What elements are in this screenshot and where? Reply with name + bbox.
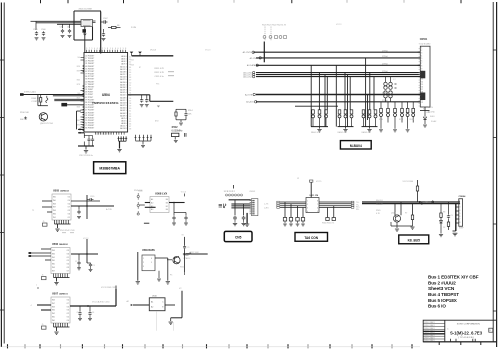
svg-text:IN0: IN0 (52, 264, 55, 266)
labels left of double wire (376, 200, 384, 215)
title block left column divider (444, 320, 446, 342)
capacitor C511 pair (87, 138, 90, 142)
opto U510 box (149, 298, 165, 311)
svg-text:8: 8 (125, 48, 126, 50)
svg-text:O7: O7 (67, 303, 69, 305)
svg-text:AD12 4: AD12 4 (120, 65, 126, 68)
IC U507 right pin texts (67, 300, 69, 322)
svg-text:A2-STB: A2-STB (245, 93, 253, 96)
svg-text:( 7 P 4.5 E 3 B ): ( 7 P 4.5 E 3 B ) (458, 337, 474, 339)
label box KB (399, 235, 429, 244)
title block bottom edge line (423, 341, 496, 343)
U506 left wire 2 (31, 252, 52, 254)
svg-text:1: 1 (307, 201, 308, 203)
svg-text:IN7: IN7 (52, 303, 55, 305)
svg-text:AD3 1: AD3 1 (121, 58, 126, 61)
svg-text:O5: O5 (67, 260, 69, 262)
IC U507 left pin texts (52, 300, 55, 322)
svg-text:VCC5: VCC5 (316, 181, 322, 183)
pad stub x311 top (310, 180, 313, 182)
bus left-end labels (243, 51, 260, 104)
cluster drop wire 1 (234, 200, 236, 215)
connector CN501 inner pin column (421, 48, 423, 105)
connector column pins (250, 200, 255, 215)
svg-text:Bus 5 IOP18X: Bus 5 IOP18X (428, 298, 458, 303)
frame bottom faint line (1, 346, 420, 348)
vertical to ground rail (83, 142, 85, 147)
svg-text:4: 4 (112, 48, 113, 50)
wire drop x367 long (367, 95, 369, 121)
bus wire A2-CNT0 (253, 51, 420, 53)
svg-text:6: 6 (115, 48, 116, 50)
svg-text:Bus 4 TBDPST: Bus 4 TBDPST (428, 292, 459, 297)
svg-text:U504: U504 (102, 93, 110, 97)
svg-text:C515 0.1u: C515 0.1u (155, 76, 164, 78)
svg-text:IN2: IN2 (52, 313, 55, 315)
Q503 drop wires (394, 204, 396, 215)
svg-text:R510 10K: R510 10K (20, 112, 30, 114)
relay block K501 body (142, 255, 155, 271)
U505 junction (86, 205, 88, 207)
bus wire A2-CLK1 (256, 74, 420, 76)
connector CN501 body (420, 46, 430, 107)
svg-text:KB8P: KB8P (459, 228, 464, 230)
svg-text:R509 1K: R509 1K (31, 98, 39, 100)
svg-text:C506: C506 (41, 29, 46, 31)
connector CN504 pin texts (459, 201, 460, 225)
svg-text:IN1: IN1 (53, 217, 56, 219)
svg-text:Q501 DTC114: Q501 DTC114 (40, 123, 54, 125)
wire VCC thick right of IC (132, 55, 174, 57)
chain labels (443, 212, 453, 230)
svg-text:A0: A0 (151, 208, 153, 211)
wire Q502 base (167, 259, 172, 261)
svg-text:CN5: CN5 (235, 236, 242, 240)
svg-text:O3: O3 (67, 267, 69, 269)
svg-text:L-RX: L-RX (264, 208, 269, 210)
wire L to ground (171, 317, 182, 319)
U507 left wire 1 long (37, 304, 51, 306)
svg-text:O1: O1 (67, 257, 69, 259)
ground thick feed (453, 233, 458, 236)
wire horizontal Q502 net (183, 253, 208, 255)
IC U505 bottom pin comb (55, 220, 69, 224)
svg-text:17Px0: 17Px0 (382, 64, 389, 66)
wire U510 right (165, 304, 175, 306)
svg-text:AD63 1: AD63 1 (120, 109, 126, 112)
svg-text:N0: N0 (78, 57, 80, 59)
svg-text:4 MVCC-A01: 4 MVCC-A01 (24, 91, 37, 94)
svg-text:6: 6 (317, 208, 318, 210)
svg-text:R541 R542 C526: R541 R542 C526 (60, 230, 75, 232)
svg-text:6.000MHz: 6.000MHz (172, 129, 184, 132)
title block sheet box (489, 328, 493, 332)
svg-text:C21 C22 C23 C24: C21 C22 C23 C24 (96, 134, 111, 136)
U506 left wire 4 (45, 259, 51, 261)
jumper box left of U505 (43, 223, 48, 226)
svg-text:AD15 5: AD15 5 (120, 68, 126, 71)
svg-text:IN5: IN5 (52, 260, 55, 262)
U511 right connector stubs (351, 201, 354, 208)
cluster capacitor CA2 (242, 216, 246, 221)
svg-text:AD0 0: AD0 0 (121, 55, 126, 58)
svg-text:2: 2 (459, 204, 460, 206)
frame bottom edge ticks (8, 344, 413, 348)
U511 right wire 2 (319, 203, 351, 205)
svg-text:0: 0 (118, 48, 119, 50)
wire oscillator pin to IC top (84, 27, 86, 53)
U505 left wires (42, 200, 52, 202)
bus wire A2-CNT1 (256, 57, 420, 59)
svg-text:A-TXD: A-TXD (106, 208, 113, 211)
ground K501 right (166, 282, 170, 284)
IC U504 outside-left net labels (77, 57, 80, 127)
wire vertical near Q502 lower (184, 249, 186, 272)
net text rows below connector (428, 106, 436, 123)
wire top feed (74, 10, 101, 12)
cluster capacitor CA1 (233, 216, 237, 221)
svg-text:VCC5 R543 C531: VCC5 R543 C531 (101, 287, 116, 289)
svg-text:KB-DAT: KB-DAT (376, 203, 384, 206)
capacitor C507 right of VCC line (101, 21, 104, 23)
svg-text:O0: O0 (68, 200, 70, 202)
IC U504 top pin numbers (86, 48, 126, 50)
IC U506 left pin texts (52, 250, 55, 272)
svg-text:C5: C5 (77, 312, 79, 314)
U511 right wire 1 (319, 201, 351, 203)
ground RA502 (345, 127, 347, 129)
svg-text:AD30 0: AD30 0 (120, 81, 126, 84)
svg-text:U505: U505 (53, 189, 60, 192)
svg-text:AD8 6: AD8 6 (121, 122, 126, 125)
opto U510 inner texts (151, 301, 164, 309)
IC U504 right pin name column (120, 55, 126, 130)
svg-text:1: 1 (459, 201, 460, 203)
svg-text:Bus 1 ED3/TEK XIY CBF: Bus 1 ED3/TEK XIY CBF (428, 275, 479, 280)
svg-text:RA503 47K: RA503 47K (362, 131, 372, 134)
svg-text:IN1: IN1 (52, 257, 55, 259)
wire thick pair into IC lower-left (78, 128, 84, 130)
svg-text:R530: R530 (379, 119, 383, 121)
wire x311 down to U511 (310, 182, 312, 197)
svg-text:1: 1 (143, 258, 144, 260)
IC U506 right pin texts (67, 250, 69, 272)
pull-up vertical dashes (265, 27, 271, 42)
wire drop x374 (373, 77, 375, 110)
oscillator pin stubs (93, 21, 96, 23)
svg-text:A2-CLK2: A2-CLK2 (243, 76, 252, 79)
svg-text:X501 16.93M: X501 16.93M (79, 8, 92, 10)
wire second into IC (53, 95, 84, 97)
svg-text:A2-CNT0: A2-CNT0 (243, 51, 253, 54)
svg-text:O3: O3 (67, 306, 69, 308)
svg-text:IN3: IN3 (52, 250, 55, 252)
IC U507 body (51, 297, 70, 323)
svg-text:5: 5 (123, 48, 124, 50)
connector CN504 body (459, 199, 463, 227)
svg-text:P85: P85 (156, 84, 159, 86)
svg-text:O0: O0 (67, 264, 69, 266)
connector blob left end (20, 93, 24, 96)
U506 left connector stubs (29, 252, 32, 254)
svg-text:AN3: AN3 (155, 120, 159, 123)
IC U504 left pin name column (85, 56, 95, 130)
faint vertical leakage lines (155, 311, 157, 331)
capacitor C517 (146, 95, 148, 98)
jumper box left of U507 (42, 326, 47, 329)
U506 cap C522 (78, 254, 80, 261)
U511 inner pin texts (307, 201, 318, 214)
diamond arrow (431, 201, 434, 204)
svg-text:AD24 8: AD24 8 (120, 76, 126, 79)
svg-text:KB-CLK: KB-CLK (376, 200, 384, 202)
cluster grounds (234, 221, 236, 223)
svg-text:86 P38INT: 86 P38INT (85, 128, 95, 130)
svg-text:5: 5 (317, 211, 318, 213)
resistor pack RA501 (312, 110, 328, 127)
Q503 grounds (396, 222, 398, 228)
svg-text:TA6 CON: TA6 CON (304, 236, 318, 240)
frame top zone ticks (41, 0, 462, 3)
svg-text:N26: N26 (77, 66, 80, 68)
U508 caps top rail (174, 212, 186, 214)
svg-text:IN6: IN6 (52, 253, 55, 255)
resistor R506 horizontal (108, 27, 112, 29)
svg-text:SHLD: SHLD (430, 116, 435, 118)
svg-text:C1: C1 (187, 247, 189, 249)
svg-text:VCC3: VCC3 (336, 24, 342, 26)
U506 left wire 3 (31, 255, 52, 257)
svg-text:3: 3 (143, 266, 144, 268)
svg-text:VCC3: VCC3 (83, 238, 89, 240)
svg-text:AD69 3: AD69 3 (120, 114, 126, 117)
net labels above bus right ends (382, 50, 389, 102)
U508 right wire thick (169, 202, 185, 204)
svg-text:A2-5V: A2-5V (428, 106, 434, 109)
title block bottom cell ticks (450, 339, 475, 342)
wire loop lower (38, 105, 48, 107)
svg-text:O6: O6 (67, 253, 69, 255)
wire drop x327 (326, 77, 328, 110)
wire into CN504 top (459, 199, 461, 202)
wire left of K501 (137, 252, 139, 281)
chain top wires (440, 204, 442, 209)
wire drop x336 (335, 65, 337, 126)
frame left border line (0, 3, 2, 348)
relay K501 pin rows (143, 258, 152, 268)
svg-text:P-ON: P-ON (131, 27, 137, 29)
svg-text:T: T (36, 285, 37, 287)
middle chain components (440, 209, 442, 213)
wire net with box (61, 104, 84, 106)
ground stub below rail (85, 146, 87, 150)
svg-text:O0: O0 (67, 320, 69, 322)
U507 junction (87, 305, 89, 307)
svg-text:6: 6 (459, 216, 460, 218)
title block left column row lines (423, 324, 445, 339)
pullup resistor R566 vertical (417, 180, 419, 186)
svg-text:CN502: CN502 (249, 191, 255, 193)
ground for C503 (61, 36, 65, 38)
svg-text:7: 7 (317, 204, 318, 206)
svg-text:0: 0 (99, 48, 100, 50)
cluster drop wire 2 (243, 204, 245, 215)
svg-text:4: 4 (31, 305, 32, 307)
U506 vertical VCC (86, 239, 88, 263)
short net below bus lines (295, 105, 338, 107)
svg-text:Q503: Q503 (391, 212, 396, 214)
svg-text:R6: R6 (117, 25, 119, 27)
title block left column texts (424, 321, 435, 342)
svg-text:A4: A4 (151, 198, 153, 201)
IC U504 top pin stubs (87, 50, 126, 53)
svg-text:O5: O5 (68, 197, 70, 199)
svg-text:Bus 2 #UUU2: Bus 2 #UUU2 (428, 280, 456, 285)
svg-text:A2-DATA: A2-DATA (247, 64, 256, 67)
svg-text:AD18 6: AD18 6 (120, 71, 126, 74)
wire drop x319 (318, 73, 320, 110)
svg-text:AD5 5: AD5 5 (121, 120, 126, 123)
right small boxes (326, 218, 329, 221)
svg-text:U508 LVX: U508 LVX (155, 192, 167, 196)
IC U508 pin texts (151, 198, 168, 211)
cluster wire 2 (231, 203, 250, 205)
junction blob on wire (419, 201, 421, 203)
svg-text:IN7: IN7 (53, 207, 56, 209)
resistor boxes below (283, 218, 304, 222)
common rail RA502 (338, 126, 354, 128)
svg-text:N82: N82 (77, 120, 80, 122)
wire K501 mid drop (158, 271, 160, 278)
ground for C506 (42, 38, 46, 40)
svg-text:A2-GND: A2-GND (428, 111, 435, 114)
ground for C504 (68, 36, 72, 38)
svg-text:IN6: IN6 (53, 214, 56, 216)
wire below CN501 (424, 107, 426, 111)
pull-up feed wire down to bus1 (263, 42, 265, 63)
common rail RA501 (311, 126, 328, 128)
diode pair symbols left (219, 204, 226, 208)
svg-text:5: 5 (459, 213, 460, 215)
svg-text:IN4: IN4 (52, 300, 55, 302)
svg-text:O2: O2 (67, 313, 69, 315)
transistor Q502 internals (174, 256, 179, 263)
svg-text:1 2 3 2 3 2 2: 1 2 3 2 3 2 2 (224, 191, 236, 193)
wire drop x311 (310, 65, 312, 126)
svg-text:2: 2 (102, 48, 103, 50)
IC U506 body (51, 248, 70, 274)
svg-text:X502: X502 (172, 125, 179, 129)
svg-text:M-BU04: M-BU04 (350, 144, 362, 148)
IC U504 bottom pin stubs (96, 132, 125, 135)
ground rail under IC-left (78, 145, 94, 147)
wire across Q503 bottoms (391, 225, 413, 227)
svg-text:1: 1 (110, 48, 111, 50)
svg-text:A0: A0 (151, 201, 153, 204)
labels right of U511 (356, 202, 361, 211)
U507 left wire 2 (41, 309, 51, 311)
U505 right wire 2 thick (71, 205, 114, 207)
wire VCC vertical main (100, 12, 102, 54)
svg-text:4: 4 (94, 48, 95, 50)
U508 bottom-left ground bar (144, 222, 149, 224)
svg-text:N43: N43 (77, 107, 80, 109)
svg-text:AD33 1: AD33 1 (120, 83, 126, 86)
svg-text:Bus 6 IO: Bus 6 IO (428, 304, 446, 309)
svg-text:R531: R531 (399, 119, 403, 121)
U508 stub under VCC3 (184, 194, 186, 197)
ground X502 (174, 137, 176, 140)
svg-text:C4: C4 (67, 27, 69, 29)
svg-text:VCC3: VCC3 (150, 50, 157, 52)
wire net RESET long (23, 94, 84, 96)
wire drop x345 (344, 73, 346, 110)
svg-text:AD27 9: AD27 9 (120, 78, 126, 81)
vertical wire joining pair (76, 111, 78, 129)
svg-text:8: 8 (317, 201, 318, 203)
svg-text:8: 8 (107, 48, 108, 50)
svg-text:O3: O3 (68, 210, 70, 212)
frame left zone ticks (0, 60, 4, 310)
svg-text:A2-ACK: A2-ACK (246, 101, 254, 104)
U508 left wires (145, 202, 150, 204)
U507 cap C524 (79, 306, 81, 311)
U507 cap value labels (77, 312, 95, 314)
resistor R507 vertical (40, 95, 42, 98)
svg-text:N65: N65 (77, 80, 80, 82)
connector CN501 dark pin blocks (420, 71, 425, 79)
subsystem label box M38B67MBA (94, 162, 126, 174)
svg-text:U507: U507 (52, 292, 59, 295)
grounds under single resistors (381, 123, 408, 129)
U511 left connector stubs (277, 201, 280, 208)
arrow on oscillator output (83, 34, 87, 36)
svg-text:R511 4.7K: R511 4.7K (155, 68, 165, 70)
svg-text:FG-A2: FG-A2 (431, 120, 436, 123)
thick bent connector feed (455, 204, 457, 231)
capacitor on Q502 vertical (183, 245, 186, 249)
svg-text:IN3: IN3 (52, 267, 55, 269)
bus wire A2-ACK (256, 101, 420, 103)
title block outline (423, 320, 496, 342)
svg-text:O7: O7 (67, 270, 69, 272)
svg-text:R512 4.7K: R512 4.7K (155, 72, 165, 74)
svg-text:A2: A2 (151, 306, 153, 309)
svg-text:CN501: CN501 (420, 38, 428, 41)
divider chain R513 C518 (175, 109, 177, 112)
U508 junction on wire (173, 202, 175, 204)
svg-text:O6: O6 (67, 310, 69, 312)
svg-text:AD14 8: AD14 8 (120, 127, 126, 130)
svg-text:B0: B0 (166, 209, 168, 211)
junction dots pair (79, 129, 81, 131)
interface label box M-BUS (340, 141, 371, 149)
svg-text:DRN K.SATO: DRN K.SATO (424, 324, 435, 327)
U511 left wire 1 (280, 201, 306, 203)
IC U504 left pin stubs (81, 58, 85, 133)
wire K501 right (155, 257, 168, 259)
junction vertical drop at 37.9 (37, 95, 39, 106)
label box TAG (295, 233, 328, 242)
svg-text:C507: C507 (103, 18, 108, 20)
svg-text:17Px0: 17Px0 (382, 56, 389, 58)
resistor chain left of U508 (137, 193, 139, 213)
svg-text:C3: C3 (60, 27, 62, 29)
svg-text:B0: B0 (166, 199, 168, 201)
svg-text:U511 CM: U511 CM (310, 195, 319, 197)
ground RA501 (319, 127, 321, 129)
single resistors row right (380, 102, 415, 123)
